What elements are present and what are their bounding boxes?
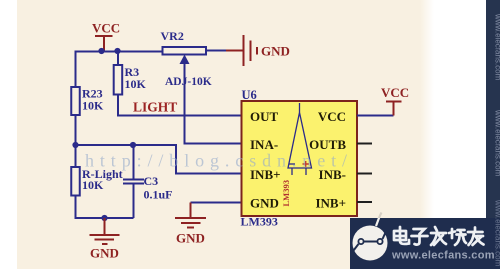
svg-text:GND: GND	[261, 44, 290, 59]
svg-text:VR2: VR2	[161, 29, 184, 43]
elecfans dark corner block	[350, 218, 500, 269]
elecfans watermark: faint logo arc on cream	[353, 226, 388, 261]
wire top horizontal VCC rail	[76, 51, 163, 53]
svg-text:C3: C3	[144, 174, 159, 188]
电	[394, 227, 409, 244]
wire R23 to mid node	[75, 115, 77, 167]
svg-text:www.elecfans.com: www.elecfans.com	[391, 250, 495, 262]
node dot bottom	[101, 215, 107, 221]
pin stub OUTB	[357, 143, 372, 145]
svg-text:10K: 10K	[125, 77, 147, 91]
wire R3 branch to OUT	[117, 51, 119, 65]
svg-text:OUT: OUT	[250, 109, 279, 124]
svg-text:LIGHT: LIGHT	[133, 100, 177, 115]
svg-text:GND: GND	[176, 231, 205, 246]
电子发烧友 white brush glyphs	[394, 227, 484, 245]
node dot VCC stem	[98, 48, 104, 54]
svg-text:http://blog.csdn.net/: http://blog.csdn.net/	[85, 151, 353, 171]
resistor R3	[114, 65, 123, 95]
子	[412, 229, 428, 245]
wire IC GND pin to ground	[191, 202, 243, 204]
发	[431, 227, 446, 245]
elecfans logo disc	[353, 213, 388, 261]
power VCC top-left	[95, 36, 113, 51]
烧	[449, 229, 466, 245]
node dot C3 top	[130, 142, 136, 148]
svg-text:10K: 10K	[82, 99, 104, 113]
svg-text:www.elecfans.com: www.elecfans.com	[494, 13, 500, 81]
wire R3 bottom to OUT pin	[118, 95, 242, 116]
resistor R-Light	[71, 167, 80, 196]
wire VCC pin to power	[357, 115, 394, 117]
potentiometer VR2	[163, 47, 207, 55]
ground GND bottom-left	[90, 218, 120, 244]
svg-text:VCC: VCC	[92, 21, 120, 36]
wire left vertical R23 branch	[75, 51, 77, 88]
svg-text:GND: GND	[90, 246, 119, 261]
wire R-Light bottom	[76, 196, 134, 219]
svg-text:VCC: VCC	[381, 85, 409, 100]
ground GND beside VR2 (bar style)	[226, 35, 257, 66]
svg-text:0.1uF: 0.1uF	[144, 188, 173, 202]
op-amp U6 LM393 body	[242, 101, 358, 216]
wire mid node to INB+	[76, 145, 243, 174]
resistor R23	[71, 87, 80, 115]
svg-text:LM393: LM393	[241, 215, 278, 229]
svg-text:LM393: LM393	[281, 180, 291, 206]
svg-text:www.elecfans.com: www.elecfans.com	[494, 109, 500, 177]
wiper arrow of VR2	[185, 64, 243, 144]
svg-text:U6: U6	[242, 88, 257, 102]
ground GND middle (under IC)	[175, 203, 206, 228]
svg-text:10K: 10K	[82, 178, 104, 192]
op-amp triangle glyph	[288, 103, 312, 175]
svg-text:ADJ-10K: ADJ-10K	[165, 76, 212, 88]
wire VR2 right to ground	[206, 50, 226, 52]
pin stub INB+ right	[357, 201, 372, 203]
node dot R3 top	[114, 48, 120, 54]
svg-text:VCC: VCC	[318, 109, 346, 124]
友	[468, 228, 484, 246]
pin stub INB-	[357, 173, 372, 175]
svg-text:INB+: INB+	[315, 196, 346, 211]
elecfans dark right strip	[486, 0, 500, 218]
node dot mid left	[72, 142, 78, 148]
svg-text:www.elecfans.com: www.elecfans.com	[494, 199, 500, 267]
capacitor C3	[133, 184, 135, 219]
svg-text:GND: GND	[250, 196, 279, 211]
power VCC right	[386, 102, 402, 116]
